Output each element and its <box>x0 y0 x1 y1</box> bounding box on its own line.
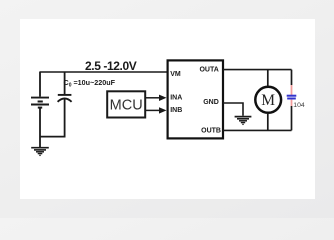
wire: battery bottom to ground <box>39 108 41 148</box>
wire: cap branch (black top) <box>291 70 293 85</box>
svg-text:C0 =10u~220uF: C0 =10u~220uF <box>64 78 116 88</box>
svg-text:INA: INA <box>170 95 182 102</box>
ground (left) <box>31 148 49 156</box>
svg-text:VM: VM <box>170 71 181 78</box>
wire: cap branch pink lower <box>291 100 293 106</box>
ground (right, at GND pin) <box>235 117 252 125</box>
wire: cap branch black bottom <box>291 106 293 130</box>
wire: battery top drop <box>39 72 41 97</box>
svg-text:GND: GND <box>203 99 219 106</box>
wire: OUTB bottom run <box>223 129 292 131</box>
wire: MCU to INB (arrow) <box>146 109 160 111</box>
MCU box <box>107 91 145 117</box>
battery BT1 <box>31 98 49 108</box>
wire: cap branch pink upper <box>291 85 293 95</box>
wire: C0 top drop <box>64 72 66 95</box>
svg-text:M: M <box>261 92 275 109</box>
wire: MCU to INA (arrow) <box>146 97 160 99</box>
capacitor C0 (polarized) <box>58 95 72 102</box>
wire: power rail to VM <box>40 71 169 73</box>
svg-text:INB: INB <box>170 107 182 114</box>
wire: C0 bottom, joins battery branch <box>40 100 65 137</box>
wire: motor branch top <box>267 70 269 88</box>
wire: OUTA to motor / cap branch <box>223 69 292 71</box>
svg-text:MCU: MCU <box>110 98 143 114</box>
wire: GND to ground <box>223 103 243 116</box>
svg-text:2.5 -12.0V: 2.5 -12.0V <box>85 59 137 73</box>
capacitor 104 (blue plates) <box>287 96 297 99</box>
svg-text:104: 104 <box>293 102 305 109</box>
svg-text:OUTB: OUTB <box>201 128 221 135</box>
wire: motor branch bottom <box>267 113 269 130</box>
svg-text:OUTA: OUTA <box>199 67 218 74</box>
driver IC U1 box <box>168 60 223 138</box>
motor M <box>255 87 281 113</box>
